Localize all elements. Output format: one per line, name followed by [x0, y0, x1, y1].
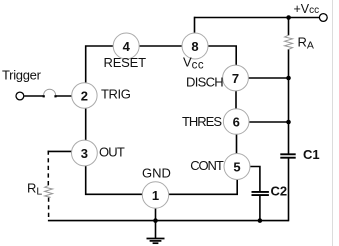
label TRIG	[101, 86, 131, 101]
wire: pin7 bottom to pin6 top	[235, 91, 237, 109]
capacitor C1	[280, 154, 295, 157]
label Vcc	[183, 55, 204, 72]
wire: pin3 bottom corner right to pin1	[86, 166, 143, 195]
wire: pin4 left lead and corner down to pin2	[86, 46, 114, 83]
wire: pin1 right corner up to pin5 bottom	[169, 180, 238, 195]
wire: C2 bottom to bottom rail	[259, 195, 261, 221]
switch contact tick right	[54, 95, 56, 97]
svg-text:DISCH: DISCH	[186, 75, 223, 90]
node: junction dot pin7 / right rail	[286, 76, 291, 81]
wire: pin6 right to right rail	[249, 121, 289, 123]
label GND	[142, 166, 171, 181]
svg-text:C2: C2	[271, 184, 288, 199]
ground symbol	[147, 239, 165, 244]
resistor RA leads	[288, 18, 290, 36]
svg-text:OUT: OUT	[99, 144, 125, 159]
node: junction dot ground / bottom rail	[153, 218, 158, 223]
resistor RL zigzag	[45, 185, 53, 197]
svg-text:THRES: THRES	[182, 114, 222, 129]
+Vcc terminal circle	[319, 14, 327, 22]
label CONT	[190, 158, 224, 173]
label +Vcc	[294, 2, 320, 16]
svg-text:GND: GND	[142, 166, 171, 181]
label RL	[27, 181, 42, 198]
resistor RA zigzag	[285, 35, 293, 49]
wire: riser from pin 8 up to top rail	[194, 17, 196, 34]
node: junction dot top rail / RA	[286, 15, 291, 20]
wire: pin2 bottom to pin3 top	[85, 108, 87, 140]
pin circle 6	[223, 109, 249, 135]
wire: pin3 left to RL corner	[48, 150, 72, 152]
label C2	[271, 184, 288, 199]
svg-text:C1: C1	[303, 147, 320, 162]
wire: bottom rail	[48, 220, 289, 222]
switch arc (trigger pushbutton)	[44, 89, 56, 95]
wire: top rail from pin8 riser to +Vcc terminal	[195, 17, 320, 19]
svg-text:6: 6	[233, 114, 240, 129]
wire: right rail from C1 down to bottom rail	[288, 158, 290, 222]
pin circle 2	[72, 83, 97, 108]
label Trigger	[2, 68, 42, 83]
svg-text:7: 7	[232, 71, 239, 86]
label C1	[303, 147, 320, 162]
node: junction dot C2 / bottom rail	[258, 218, 263, 223]
svg-text:3: 3	[81, 146, 88, 161]
label RESET	[104, 55, 147, 70]
svg-text:5: 5	[233, 159, 240, 174]
pin circle 4	[113, 33, 139, 59]
page border line (right)	[332, 0, 334, 246]
pin circle 8	[182, 33, 208, 59]
pin circle 1	[142, 182, 168, 208]
svg-text:TRIG: TRIG	[101, 86, 131, 101]
label THRES	[182, 114, 222, 129]
trigger input terminal circle	[16, 92, 24, 100]
svg-text:4: 4	[123, 39, 131, 54]
pin circle 7	[223, 65, 249, 91]
wire: pin8 right corner down to pin7	[208, 46, 236, 65]
svg-text:Trigger: Trigger	[2, 68, 42, 83]
wire: pin7 right to right rail	[248, 77, 288, 79]
wire: dashed lead RL bottom	[48, 198, 50, 221]
wire: switch to pin 2	[56, 95, 72, 97]
label RA	[298, 34, 314, 51]
wire: trigger terminal to switch	[24, 95, 43, 97]
pin circle 5	[224, 154, 250, 180]
pin circle 3	[72, 140, 98, 166]
wire: pin1 bottom to ground	[155, 208, 157, 238]
wire: pin6 bottom to pin5 top	[236, 134, 238, 154]
svg-text:RESET: RESET	[104, 55, 147, 70]
svg-text:CONT: CONT	[190, 158, 224, 173]
svg-text:1: 1	[152, 188, 159, 203]
label DISCH	[186, 75, 223, 90]
label OUT	[99, 144, 125, 159]
switch contact tick left	[43, 95, 45, 97]
wire: right rail from pin7 junction down to C1	[288, 78, 290, 154]
wire: dashed lead RL top	[47, 151, 49, 186]
svg-text:2: 2	[81, 88, 88, 103]
capacitor C2	[252, 192, 269, 195]
wire: pin5 right corner down to C2	[250, 167, 260, 192]
node: junction dot pin6 / right rail	[286, 120, 291, 125]
svg-text:8: 8	[191, 39, 198, 54]
wire: pin4 to pin8	[139, 45, 182, 47]
